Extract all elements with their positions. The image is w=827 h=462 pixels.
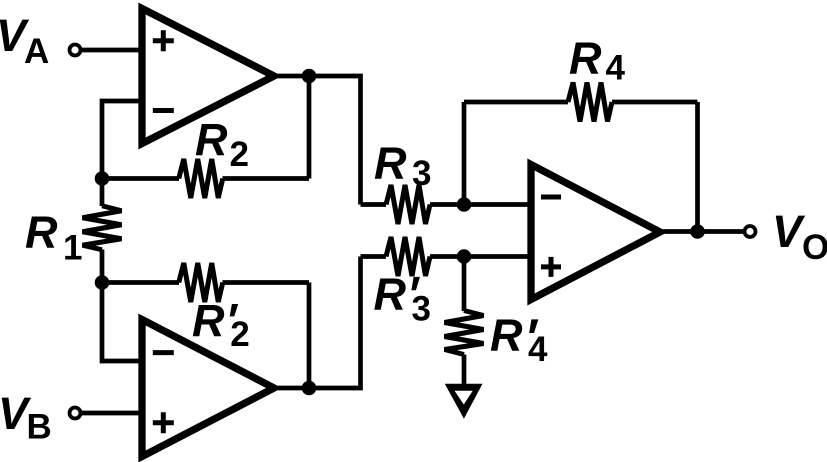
wire R4 left vertical xyxy=(462,102,467,205)
svg-text:R: R xyxy=(490,310,523,361)
resistor R1 xyxy=(83,206,122,250)
node junction op1 output xyxy=(302,69,317,84)
wire VA input xyxy=(81,48,142,53)
label R2' xyxy=(192,296,250,355)
label R2 xyxy=(195,115,249,175)
op-amp A2 bottom xyxy=(142,320,274,457)
wire op2 inverting feedback xyxy=(102,283,142,362)
label R4 xyxy=(569,33,626,88)
wire op1 output to mid column xyxy=(278,76,361,205)
svg-text:1: 1 xyxy=(63,229,82,268)
svg-text:R: R xyxy=(25,207,58,258)
node junction op2 output xyxy=(302,381,317,396)
wire op2 output to mid column xyxy=(278,257,361,389)
svg-text:R: R xyxy=(569,33,602,84)
resistor R4' xyxy=(445,311,484,355)
wire R3 left lead xyxy=(361,202,387,207)
node junction output xyxy=(690,224,705,239)
ground xyxy=(445,384,483,419)
svg-text:O: O xyxy=(802,228,827,267)
svg-text:3: 3 xyxy=(412,154,431,193)
svg-text:V: V xyxy=(772,206,806,257)
terminal VA xyxy=(70,45,81,56)
label R3 xyxy=(374,138,431,193)
wire R2 left lead xyxy=(102,176,179,181)
terminal VO xyxy=(745,226,756,237)
resistor R2' xyxy=(179,263,223,302)
label VB xyxy=(0,388,52,447)
node junction op3 plus input xyxy=(457,249,472,264)
svg-text:A: A xyxy=(24,32,49,71)
svg-text:2: 2 xyxy=(230,315,249,354)
wire R3p right lead to op3 plus xyxy=(430,254,531,259)
resistor R3' xyxy=(386,237,430,276)
svg-text:B: B xyxy=(27,408,52,447)
resistor R3 xyxy=(386,185,430,224)
wire R2p right lead to op2 output column xyxy=(223,283,310,389)
svg-text:R: R xyxy=(192,296,225,347)
wire R1 top lead xyxy=(100,179,105,207)
svg-text:2: 2 xyxy=(230,135,249,174)
terminal VB xyxy=(70,408,81,419)
wire R3 right lead to op3 minus xyxy=(430,202,531,207)
node junction op3 minus input xyxy=(457,197,472,212)
svg-text:4: 4 xyxy=(606,49,626,88)
label VA xyxy=(0,10,49,71)
label R1 xyxy=(25,207,82,268)
label VO xyxy=(772,206,827,267)
label R4' xyxy=(490,310,548,369)
svg-text:R: R xyxy=(374,269,407,320)
op-amp A3 difference xyxy=(531,165,660,300)
svg-text:R: R xyxy=(195,115,228,166)
op-amp A1 top xyxy=(142,9,274,144)
svg-text:R: R xyxy=(374,138,407,189)
wire R4p ground lead xyxy=(462,355,467,388)
wire R4 leads xyxy=(464,100,698,105)
wire VB input xyxy=(81,411,142,416)
wire R2p left lead xyxy=(102,280,179,285)
node junction at R1 top xyxy=(95,171,110,186)
node junction at R1 bottom xyxy=(95,275,110,290)
resistor R4 xyxy=(568,83,612,122)
resistor R2 xyxy=(179,159,223,198)
wire R4 right vertical xyxy=(695,102,700,232)
wire R4p top lead xyxy=(462,257,467,312)
wire R2 right lead to output column xyxy=(223,76,310,179)
wire R3p left lead xyxy=(361,254,387,259)
label R3' xyxy=(374,269,431,329)
wire op1 inverting feedback xyxy=(102,101,142,179)
svg-text:4: 4 xyxy=(528,330,548,369)
wire R1 bottom lead xyxy=(100,250,105,283)
wire op3 output xyxy=(663,229,745,234)
svg-text:3: 3 xyxy=(412,290,431,329)
